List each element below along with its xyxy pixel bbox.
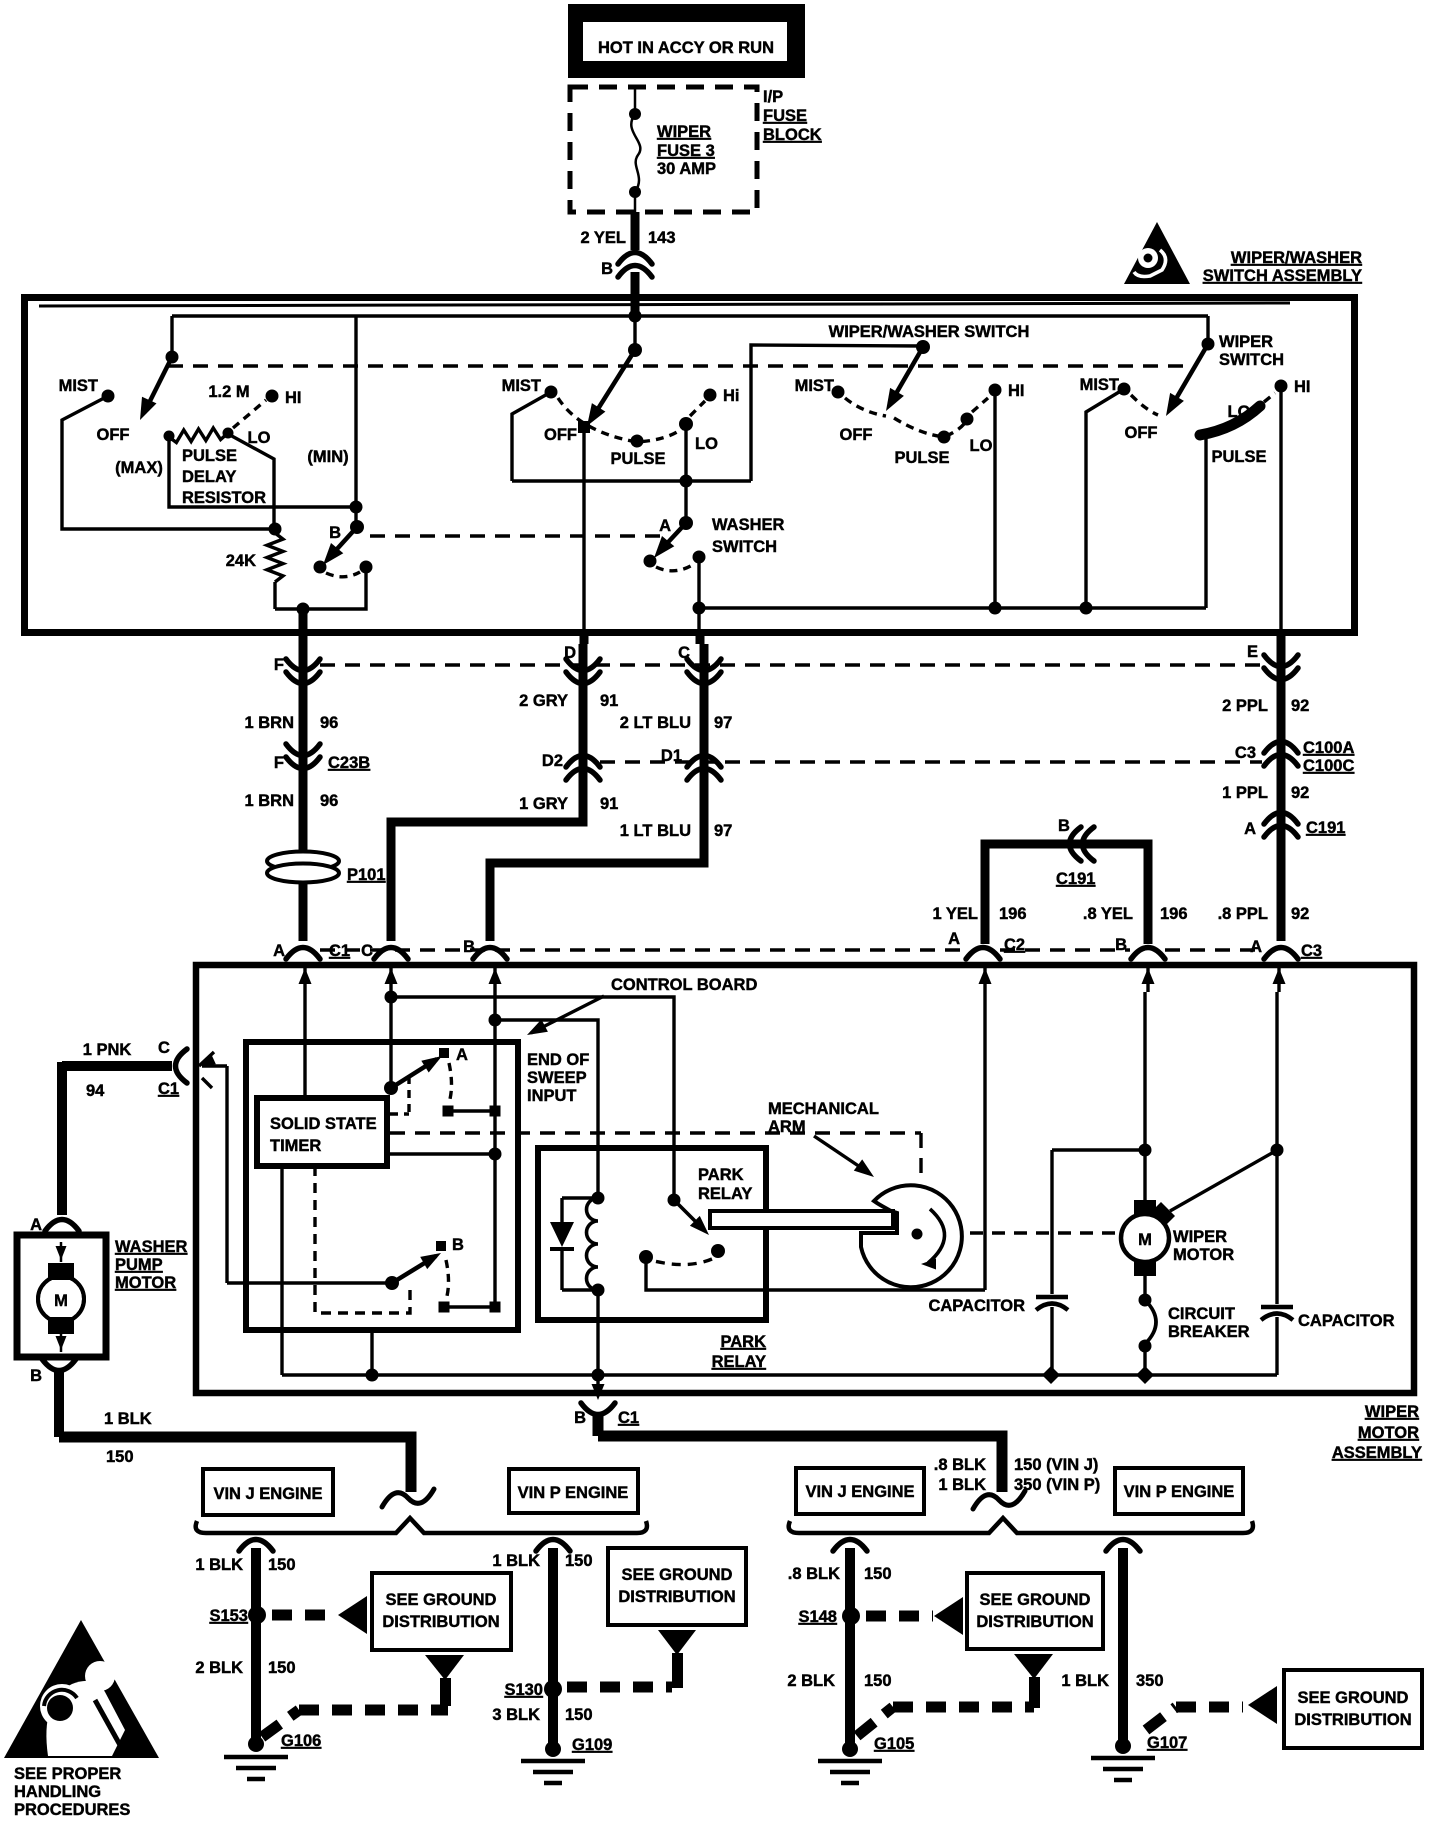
- svg-text:MOTOR: MOTOR: [115, 1274, 176, 1292]
- wire HI 4 / E exit: [1279, 386, 1282, 634]
- svg-text:F: F: [274, 656, 284, 674]
- brace right (VIN split): [789, 1518, 1253, 1533]
- svg-text:RELAY: RELAY: [698, 1185, 752, 1203]
- svg-text:MIST: MIST: [59, 377, 98, 395]
- splice S148: [842, 1607, 860, 1625]
- svg-text:B: B: [1115, 936, 1127, 954]
- capacitor 1: [1050, 1150, 1053, 1294]
- svg-text:A: A: [948, 930, 960, 948]
- svg-text:HANDLING: HANDLING: [14, 1783, 101, 1801]
- control board box: [246, 1042, 518, 1330]
- svg-text:SOLID STATE: SOLID STATE: [270, 1115, 377, 1133]
- wire D exit: [582, 481, 585, 634]
- connector C3 C100A/C100C: [1264, 742, 1298, 754]
- svg-text:92: 92: [1291, 784, 1309, 802]
- dashed end-of-sweep line to cam: [390, 1131, 921, 1134]
- svg-text:OFF: OFF: [1125, 424, 1158, 442]
- svg-text:VIN J ENGINE: VIN J ENGINE: [805, 1483, 914, 1501]
- svg-text:END OF: END OF: [527, 1051, 589, 1069]
- wire MIST to bottom: [62, 396, 270, 529]
- connector C (motor input): [374, 948, 408, 960]
- svg-text:196: 196: [1160, 905, 1188, 923]
- svg-text:2 LT BLU: 2 LT BLU: [620, 714, 691, 732]
- feed node from fuse: [631, 298, 640, 318]
- svg-text:A: A: [1244, 820, 1256, 838]
- input arrows: [303, 966, 306, 992]
- svg-text:1 BLK: 1 BLK: [938, 1476, 986, 1494]
- svg-text:OFF: OFF: [544, 426, 577, 444]
- connector D1: [687, 756, 721, 768]
- svg-text:CIRCUIT: CIRCUIT: [1168, 1305, 1235, 1323]
- svg-text:G107: G107: [1147, 1734, 1187, 1752]
- ground G106: [248, 1736, 264, 1752]
- connector B (motor input): [1131, 948, 1165, 960]
- box VIN P ENGINE 2: [1115, 1468, 1243, 1514]
- svg-text:S130: S130: [504, 1681, 543, 1699]
- svg-text:SEE GROUND: SEE GROUND: [980, 1591, 1091, 1609]
- svg-text:PULSE: PULSE: [610, 450, 665, 468]
- wire to switch 3 feed: [751, 345, 923, 481]
- svg-text:FUSE: FUSE: [763, 107, 807, 125]
- svg-text:WIPER/WASHER SWITCH: WIPER/WASHER SWITCH: [829, 323, 1030, 341]
- dashed linkage timer-switch B: [315, 1166, 410, 1313]
- svg-text:1 PPL: 1 PPL: [1222, 784, 1268, 802]
- cam wheel: [861, 1185, 962, 1287]
- svg-text:1 BRN: 1 BRN: [244, 792, 294, 810]
- wire D chain: [391, 644, 583, 941]
- svg-text:WASHER: WASHER: [712, 516, 785, 534]
- park relay box: [538, 1148, 766, 1320]
- svg-text:M: M: [54, 1292, 68, 1310]
- power source box HOT IN ACCY OR RUN: [568, 4, 805, 78]
- pulse delay resistor outline wire: [169, 437, 356, 507]
- svg-text:D: D: [564, 644, 576, 662]
- svg-text:C2: C2: [1004, 936, 1025, 954]
- svg-text:I/P: I/P: [763, 88, 783, 106]
- svg-text:2 BLK: 2 BLK: [195, 1659, 243, 1677]
- dashed linkage line (wiper switch row): [168, 364, 1185, 367]
- svg-text:2 BLK: 2 BLK: [787, 1672, 835, 1690]
- svg-text:INPUT: INPUT: [527, 1087, 577, 1105]
- svg-text:C3: C3: [1235, 744, 1256, 762]
- svg-text:91: 91: [600, 692, 618, 710]
- connector E: [1264, 655, 1298, 667]
- svg-text:A: A: [1250, 938, 1262, 956]
- wire C191 jumper: [985, 844, 1148, 944]
- wiper/washer switch assembly box: [25, 298, 1355, 633]
- svg-text:B: B: [1058, 817, 1070, 835]
- svg-text:M: M: [1138, 1231, 1152, 1249]
- svg-text:150 (VIN J): 150 (VIN J): [1014, 1456, 1098, 1474]
- node HI 4: [1275, 380, 1288, 393]
- ground G109: [545, 1741, 561, 1757]
- svg-text:PULSE: PULSE: [182, 447, 237, 465]
- svg-text:A: A: [273, 942, 285, 960]
- svg-text:B: B: [574, 1409, 586, 1427]
- wire C to park relay: [391, 997, 674, 1198]
- svg-text:S148: S148: [798, 1608, 837, 1626]
- wire E chain: [1277, 644, 1286, 941]
- node HI: [233, 400, 266, 428]
- svg-text:A: A: [659, 517, 671, 535]
- wire contact to C2 input: [646, 1257, 985, 1290]
- svg-text:BLOCK: BLOCK: [763, 126, 822, 144]
- svg-text:PROCEDURES: PROCEDURES: [14, 1801, 130, 1819]
- svg-text:150: 150: [565, 1706, 593, 1724]
- svg-text:91: 91: [600, 795, 618, 813]
- svg-text:SEE PROPER: SEE PROPER: [14, 1765, 121, 1783]
- svg-text:HI: HI: [285, 389, 302, 407]
- connector C1 arrow at motor box edge: [199, 1052, 214, 1066]
- svg-text:OFF: OFF: [840, 426, 873, 444]
- svg-text:1 LT BLU: 1 LT BLU: [620, 822, 691, 840]
- svg-text:P101: P101: [347, 866, 386, 884]
- svg-text:196: 196: [999, 905, 1027, 923]
- dashed line cam to motor: [970, 1231, 1118, 1234]
- svg-text:97: 97: [714, 714, 732, 732]
- solid state timer box: [257, 1098, 387, 1166]
- svg-text:C: C: [158, 1039, 170, 1057]
- svg-text:150: 150: [268, 1556, 296, 1574]
- switch A (end of sweep): [384, 1081, 398, 1095]
- svg-text:PUMP: PUMP: [115, 1256, 163, 1274]
- svg-text:SEE GROUND: SEE GROUND: [1298, 1689, 1409, 1707]
- svg-text:WIPER: WIPER: [1219, 333, 1273, 351]
- svg-text:(MIN): (MIN): [307, 448, 348, 466]
- node A washer: [679, 516, 693, 530]
- svg-text:.8 BLK: .8 BLK: [934, 1456, 986, 1474]
- svg-text:G105: G105: [874, 1735, 914, 1753]
- dashed to see-ground-distribution: [272, 1610, 336, 1621]
- node HI 3: [989, 384, 1002, 397]
- svg-text:94: 94: [86, 1082, 105, 1100]
- svg-text:A: A: [30, 1216, 42, 1234]
- node PULSE 2: [631, 435, 644, 448]
- svg-text:A: A: [456, 1046, 468, 1064]
- wire timer to B line: [390, 1152, 495, 1155]
- svg-text:.8 BLK: .8 BLK: [788, 1565, 840, 1583]
- svg-text:RESISTOR: RESISTOR: [182, 489, 266, 507]
- svg-text:LO: LO: [695, 435, 718, 453]
- connector G107 chain: [1106, 1540, 1140, 1552]
- box SEE GROUND DISTRIBUTION 4: [1284, 1670, 1422, 1748]
- switch assembly box inner border line: [39, 303, 1290, 306]
- switch 2 wiper arrow: [591, 350, 635, 420]
- svg-text:C191: C191: [1056, 870, 1095, 888]
- svg-text:C1: C1: [329, 942, 350, 960]
- switch 2 group: [582, 433, 585, 481]
- svg-text:1 BLK: 1 BLK: [1061, 1672, 1109, 1690]
- ground bus wire: [282, 1373, 1277, 1376]
- svg-text:PARK: PARK: [698, 1166, 744, 1184]
- svg-text:2 GRY: 2 GRY: [519, 692, 568, 710]
- svg-text:WIPER: WIPER: [1173, 1228, 1227, 1246]
- svg-text:350 (VIN P): 350 (VIN P): [1014, 1476, 1100, 1494]
- washer pump motor M: [17, 1235, 106, 1357]
- svg-text:1 PNK: 1 PNK: [83, 1041, 132, 1059]
- switch 4 wiper arrow: [1170, 344, 1208, 409]
- circuit breaker: [1143, 1276, 1146, 1297]
- connector A C3 (motor input): [1264, 948, 1298, 960]
- wire (MIN) vertical: [354, 316, 357, 527]
- svg-text:FUSE 3: FUSE 3: [657, 142, 715, 160]
- svg-text:PARK: PARK: [720, 1333, 766, 1351]
- wire timer to ground bus: [280, 1166, 283, 1375]
- wire input B down: [493, 992, 496, 1305]
- svg-text:LO: LO: [248, 429, 271, 447]
- svg-text:150: 150: [268, 1659, 296, 1677]
- svg-text:HI: HI: [1294, 378, 1311, 396]
- svg-text:Hi: Hi: [723, 387, 740, 405]
- ground G105: [842, 1741, 858, 1757]
- svg-text:C: C: [678, 644, 690, 662]
- warning triangle (handle with care): [1124, 222, 1190, 284]
- connector F C23B: [286, 744, 320, 756]
- svg-text:.8 YEL: .8 YEL: [1083, 905, 1133, 923]
- svg-text:MOTOR: MOTOR: [1358, 1424, 1419, 1442]
- svg-text:C1: C1: [618, 1409, 639, 1427]
- wire C1 input inside: [225, 1066, 228, 1283]
- svg-text:150: 150: [565, 1552, 593, 1570]
- wire .8 BLK / 1 BLK ground: [593, 1416, 604, 1436]
- wire B to relay coil: [495, 1020, 598, 1196]
- dashed linkage timer-switch A: [407, 1076, 410, 1114]
- box VIN P ENGINE: [509, 1469, 638, 1513]
- svg-text:MECHANICAL: MECHANICAL: [768, 1100, 879, 1118]
- wire input C down: [389, 992, 392, 1086]
- svg-text:1 YEL: 1 YEL: [932, 905, 978, 923]
- svg-text:150: 150: [864, 1672, 892, 1690]
- connector A C191: [1264, 813, 1298, 825]
- switch 3 wiper arrow: [890, 347, 923, 404]
- resistor 1.2M pulse delay: [164, 431, 175, 442]
- wire C chain: [490, 644, 704, 941]
- splice S153: [248, 1606, 266, 1624]
- svg-text:PULSE: PULSE: [894, 449, 949, 467]
- thick contact arc LO/PULSE: [1200, 406, 1260, 435]
- svg-text:B: B: [452, 1236, 464, 1254]
- svg-text:97: 97: [714, 822, 732, 840]
- svg-text:D2: D2: [542, 752, 563, 770]
- svg-text:1 GRY: 1 GRY: [519, 795, 568, 813]
- svg-text:DELAY: DELAY: [182, 468, 236, 486]
- svg-text:B: B: [329, 524, 341, 542]
- svg-text:MIST: MIST: [795, 377, 834, 395]
- resistor 24K: [269, 523, 282, 536]
- warning triangle (see proper handling): [4, 1620, 159, 1758]
- svg-text:RELAY: RELAY: [712, 1353, 766, 1371]
- svg-text:CAPACITOR: CAPACITOR: [1298, 1312, 1395, 1330]
- svg-text:C191: C191: [1306, 819, 1345, 837]
- connector B C1 (ground output): [596, 1375, 599, 1396]
- box VIN J ENGINE: [203, 1469, 333, 1515]
- svg-text:ASSEMBLY: ASSEMBLY: [1332, 1444, 1422, 1462]
- svg-text:1.2 M: 1.2 M: [208, 383, 249, 401]
- box SEE GROUND DISTRIBUTION 3: [967, 1573, 1103, 1649]
- svg-text:SWEEP: SWEEP: [527, 1069, 587, 1087]
- dashed connector row F/D/C/E: [320, 663, 1262, 666]
- svg-text:1 BRN: 1 BRN: [244, 714, 294, 732]
- svg-text:2 PPL: 2 PPL: [1222, 697, 1268, 715]
- connector B (motor input): [473, 948, 507, 960]
- mechanical arm bar: [710, 1211, 893, 1228]
- svg-text:C1: C1: [158, 1080, 179, 1098]
- relay contact arm: [668, 1194, 681, 1207]
- washer switch: [684, 481, 687, 521]
- svg-text:92: 92: [1291, 697, 1309, 715]
- node HI 2: [704, 389, 717, 402]
- wire bottom bus: [698, 606, 1206, 609]
- wire 1 PNK 94 to washer pump: [62, 1061, 172, 1071]
- splice S130: [544, 1680, 562, 1698]
- svg-text:HOT IN ACCY OR RUN: HOT IN ACCY OR RUN: [598, 39, 774, 57]
- connector A C2 (motor input): [966, 948, 1000, 960]
- svg-text:DISTRIBUTION: DISTRIBUTION: [618, 1588, 735, 1606]
- svg-text:D1: D1: [661, 747, 682, 765]
- svg-text:VIN P ENGINE: VIN P ENGINE: [1124, 1483, 1235, 1501]
- svg-text:DISTRIBUTION: DISTRIBUTION: [976, 1613, 1093, 1631]
- svg-text:MIST: MIST: [1080, 376, 1119, 394]
- svg-text:BREAKER: BREAKER: [1168, 1323, 1250, 1341]
- relay coil: [587, 1198, 599, 1290]
- svg-text:1 BLK: 1 BLK: [492, 1552, 540, 1570]
- connector A washer pump: [45, 1220, 79, 1232]
- ground G107: [1115, 1738, 1131, 1754]
- svg-text:30 AMP: 30 AMP: [657, 160, 716, 178]
- svg-text:92: 92: [1291, 905, 1309, 923]
- svg-text:143: 143: [648, 229, 676, 247]
- wire C exit: [697, 608, 700, 634]
- svg-text:WIPER: WIPER: [657, 123, 711, 141]
- svg-text:G109: G109: [572, 1736, 612, 1754]
- dashed connector row D2/D1/C3: [600, 760, 1262, 763]
- svg-text:SWITCH: SWITCH: [712, 538, 777, 556]
- wire MIST 4 down: [1086, 389, 1124, 608]
- svg-text:G106: G106: [281, 1732, 321, 1750]
- connector B C191: [1070, 827, 1082, 861]
- wire F exit: [299, 609, 308, 644]
- splice P101: [267, 852, 339, 871]
- box SEE GROUND DISTRIBUTION 1: [372, 1573, 511, 1650]
- svg-text:LO: LO: [970, 437, 993, 455]
- svg-text:WIPER: WIPER: [1365, 1403, 1419, 1421]
- svg-text:CONTROL BOARD: CONTROL BOARD: [611, 976, 757, 994]
- svg-text:WASHER: WASHER: [115, 1238, 188, 1256]
- wire LO to 24K: [230, 435, 274, 529]
- svg-text:MIST: MIST: [502, 377, 541, 395]
- I/P fuse block dashed box: [570, 87, 757, 212]
- wire HI 3 down: [993, 390, 996, 608]
- wire A input diagonal to motor: [1170, 1153, 1272, 1211]
- svg-text:MOTOR: MOTOR: [1173, 1246, 1234, 1264]
- connector S130 chain: [536, 1540, 570, 1552]
- svg-text:1 BLK: 1 BLK: [195, 1556, 243, 1574]
- svg-text:SWITCH ASSEMBLY: SWITCH ASSEMBLY: [1203, 267, 1362, 285]
- svg-text:CAPACITOR: CAPACITOR: [928, 1297, 1025, 1315]
- svg-text:2 YEL: 2 YEL: [580, 229, 626, 247]
- svg-text:C: C: [361, 942, 373, 960]
- svg-text:B: B: [30, 1367, 42, 1385]
- svg-text:C100C: C100C: [1303, 757, 1354, 775]
- connector S148 chain: [833, 1540, 867, 1552]
- dashed wiper arc 2: [558, 398, 683, 442]
- svg-text:150: 150: [106, 1448, 134, 1466]
- svg-text:E: E: [1247, 643, 1258, 661]
- svg-text:150: 150: [864, 1565, 892, 1583]
- svg-text:96: 96: [320, 714, 338, 732]
- svg-text:350: 350: [1136, 1672, 1164, 1690]
- svg-text:VIN J ENGINE: VIN J ENGINE: [213, 1485, 322, 1503]
- box SEE GROUND DISTRIBUTION 2: [608, 1548, 746, 1625]
- box VIN J ENGINE 2: [796, 1468, 924, 1514]
- svg-text:VIN P ENGINE: VIN P ENGINE: [518, 1484, 629, 1502]
- svg-text:DISTRIBUTION: DISTRIBUTION: [1294, 1711, 1411, 1729]
- connector B washer pump: [42, 1359, 76, 1371]
- wire: [170, 316, 173, 355]
- svg-text:WIPER/WASHER: WIPER/WASHER: [1231, 249, 1362, 267]
- brace left (VIN split): [196, 1518, 647, 1533]
- wire 1 BLK 150 washer pump ground: [54, 1372, 64, 1437]
- connector D2: [566, 756, 600, 768]
- svg-text:S153: S153: [209, 1607, 248, 1625]
- svg-text:HI: HI: [1008, 382, 1025, 400]
- svg-text:B: B: [601, 260, 613, 278]
- svg-text:SEE GROUND: SEE GROUND: [386, 1591, 497, 1609]
- connector B (switch assembly input): [618, 253, 652, 265]
- fuse WIPER FUSE 3 30 AMP: [634, 87, 637, 114]
- wiper motor M: [1134, 1200, 1156, 1216]
- svg-text:SEE GROUND: SEE GROUND: [622, 1566, 733, 1584]
- svg-text:TIMER: TIMER: [270, 1137, 321, 1155]
- svg-text:96: 96: [320, 792, 338, 810]
- svg-text:DISTRIBUTION: DISTRIBUTION: [382, 1613, 499, 1631]
- wire F chain: [299, 644, 308, 941]
- diode: [562, 1196, 598, 1199]
- wire B input to motor: [1052, 1148, 1145, 1151]
- svg-text:1 BLK: 1 BLK: [104, 1410, 152, 1428]
- switch 1 wiper arrow: [144, 357, 172, 413]
- wire PULSE 4 down: [1204, 435, 1207, 608]
- svg-text:F: F: [274, 754, 284, 772]
- svg-text:3 BLK: 3 BLK: [492, 1706, 540, 1724]
- svg-text:SWITCH: SWITCH: [1219, 351, 1284, 369]
- connector C: [687, 659, 721, 671]
- wire 2 YEL 143 from fuse: [631, 212, 640, 250]
- switch 1 lower contact arrow: [327, 527, 357, 560]
- connector A C1: [286, 948, 320, 960]
- capacitor 2: [1275, 1150, 1278, 1304]
- svg-text:B: B: [463, 938, 475, 956]
- connector S153 chain: [239, 1540, 273, 1552]
- switch 4 (wiper switch) group: [1206, 316, 1209, 342]
- svg-text:OFF: OFF: [97, 426, 130, 444]
- triangle connector below box 1: [425, 1655, 464, 1680]
- svg-text:C3: C3: [1301, 942, 1322, 960]
- svg-text:.8 PPL: .8 PPL: [1218, 905, 1268, 923]
- svg-text:ARM: ARM: [768, 1118, 806, 1136]
- wire to F output: [275, 567, 366, 609]
- node LO 2: [679, 417, 693, 431]
- dashed linkage washer row: [370, 534, 663, 537]
- switch B (parking): [227, 1281, 392, 1284]
- dashed connector row motor inputs: [320, 948, 965, 951]
- wire input A down to timer: [303, 992, 306, 1098]
- connector D: [566, 659, 600, 671]
- svg-text:24K: 24K: [226, 552, 256, 570]
- svg-text:C100A: C100A: [1303, 739, 1354, 757]
- wire bus 2: [512, 479, 751, 482]
- svg-text:LO: LO: [1228, 403, 1251, 421]
